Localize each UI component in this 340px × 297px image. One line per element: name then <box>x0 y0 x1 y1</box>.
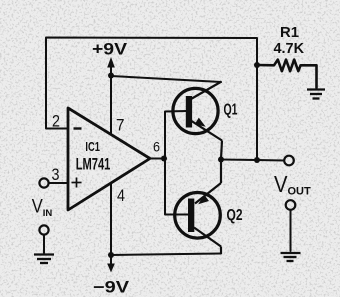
wire output to Q1 base <box>165 111 187 159</box>
transistor Q1 <box>173 82 222 160</box>
transistor Q2 <box>175 160 221 255</box>
svg-text:Q1: Q1 <box>224 102 238 119</box>
terminal VIN <box>39 178 48 187</box>
wire op-amp output pin 6 <box>150 158 165 160</box>
wire -9V rail to Q2 collector <box>111 254 221 256</box>
svg-text:IC1: IC1 <box>85 139 100 154</box>
ground (R1) <box>307 90 325 99</box>
ground (VIN) <box>34 255 54 264</box>
op-amp minus marker <box>74 127 82 129</box>
resistor R1 <box>257 60 317 88</box>
wire +9V branch down to pin 7 <box>110 76 112 135</box>
node output pin6 <box>161 156 167 162</box>
svg-text:R1: R1 <box>280 24 299 41</box>
node -9V junction <box>108 252 114 258</box>
wire pin 4 down to -9V node <box>110 183 112 255</box>
svg-text:+9V: +9V <box>92 41 127 59</box>
wire feedback loop (pin2 - left - top - down to R1 junction) <box>46 38 257 129</box>
wire R1 junction down to output rail <box>256 65 258 160</box>
terminal VIN ground <box>39 225 48 234</box>
power +9V arrow <box>107 57 115 76</box>
terminal VOUT ground <box>286 200 296 210</box>
op-amp IC1 triangle <box>68 108 150 210</box>
node R1 junction <box>254 62 260 68</box>
node emitter junction <box>218 157 224 163</box>
wire +9V to Q1 collector <box>111 76 221 82</box>
wire VOUT lower terminal to ground <box>290 211 292 252</box>
svg-text:−9V: −9V <box>93 279 129 297</box>
svg-text:7: 7 <box>116 116 125 135</box>
svg-text:4: 4 <box>117 186 125 205</box>
wire output to Q2 base <box>165 159 189 215</box>
ground (VOUT) <box>281 253 301 261</box>
power -9V arrow <box>107 255 115 273</box>
svg-text:3: 3 <box>52 165 60 184</box>
node VOUT junction <box>254 157 260 163</box>
svg-text:Q2: Q2 <box>227 207 243 224</box>
svg-text:4.7K: 4.7K <box>274 40 305 57</box>
wire pin 3 from VIN terminal <box>49 182 68 184</box>
svg-text:2: 2 <box>52 112 60 131</box>
wire VIN lower terminal to ground <box>43 235 45 253</box>
svg-text:LM741: LM741 <box>76 155 111 174</box>
op-amp plus marker <box>72 178 82 188</box>
node +9V junction <box>108 73 114 79</box>
svg-text:6: 6 <box>153 140 160 155</box>
terminal VOUT <box>284 156 294 166</box>
wire output rail to VOUT terminal <box>221 160 284 161</box>
